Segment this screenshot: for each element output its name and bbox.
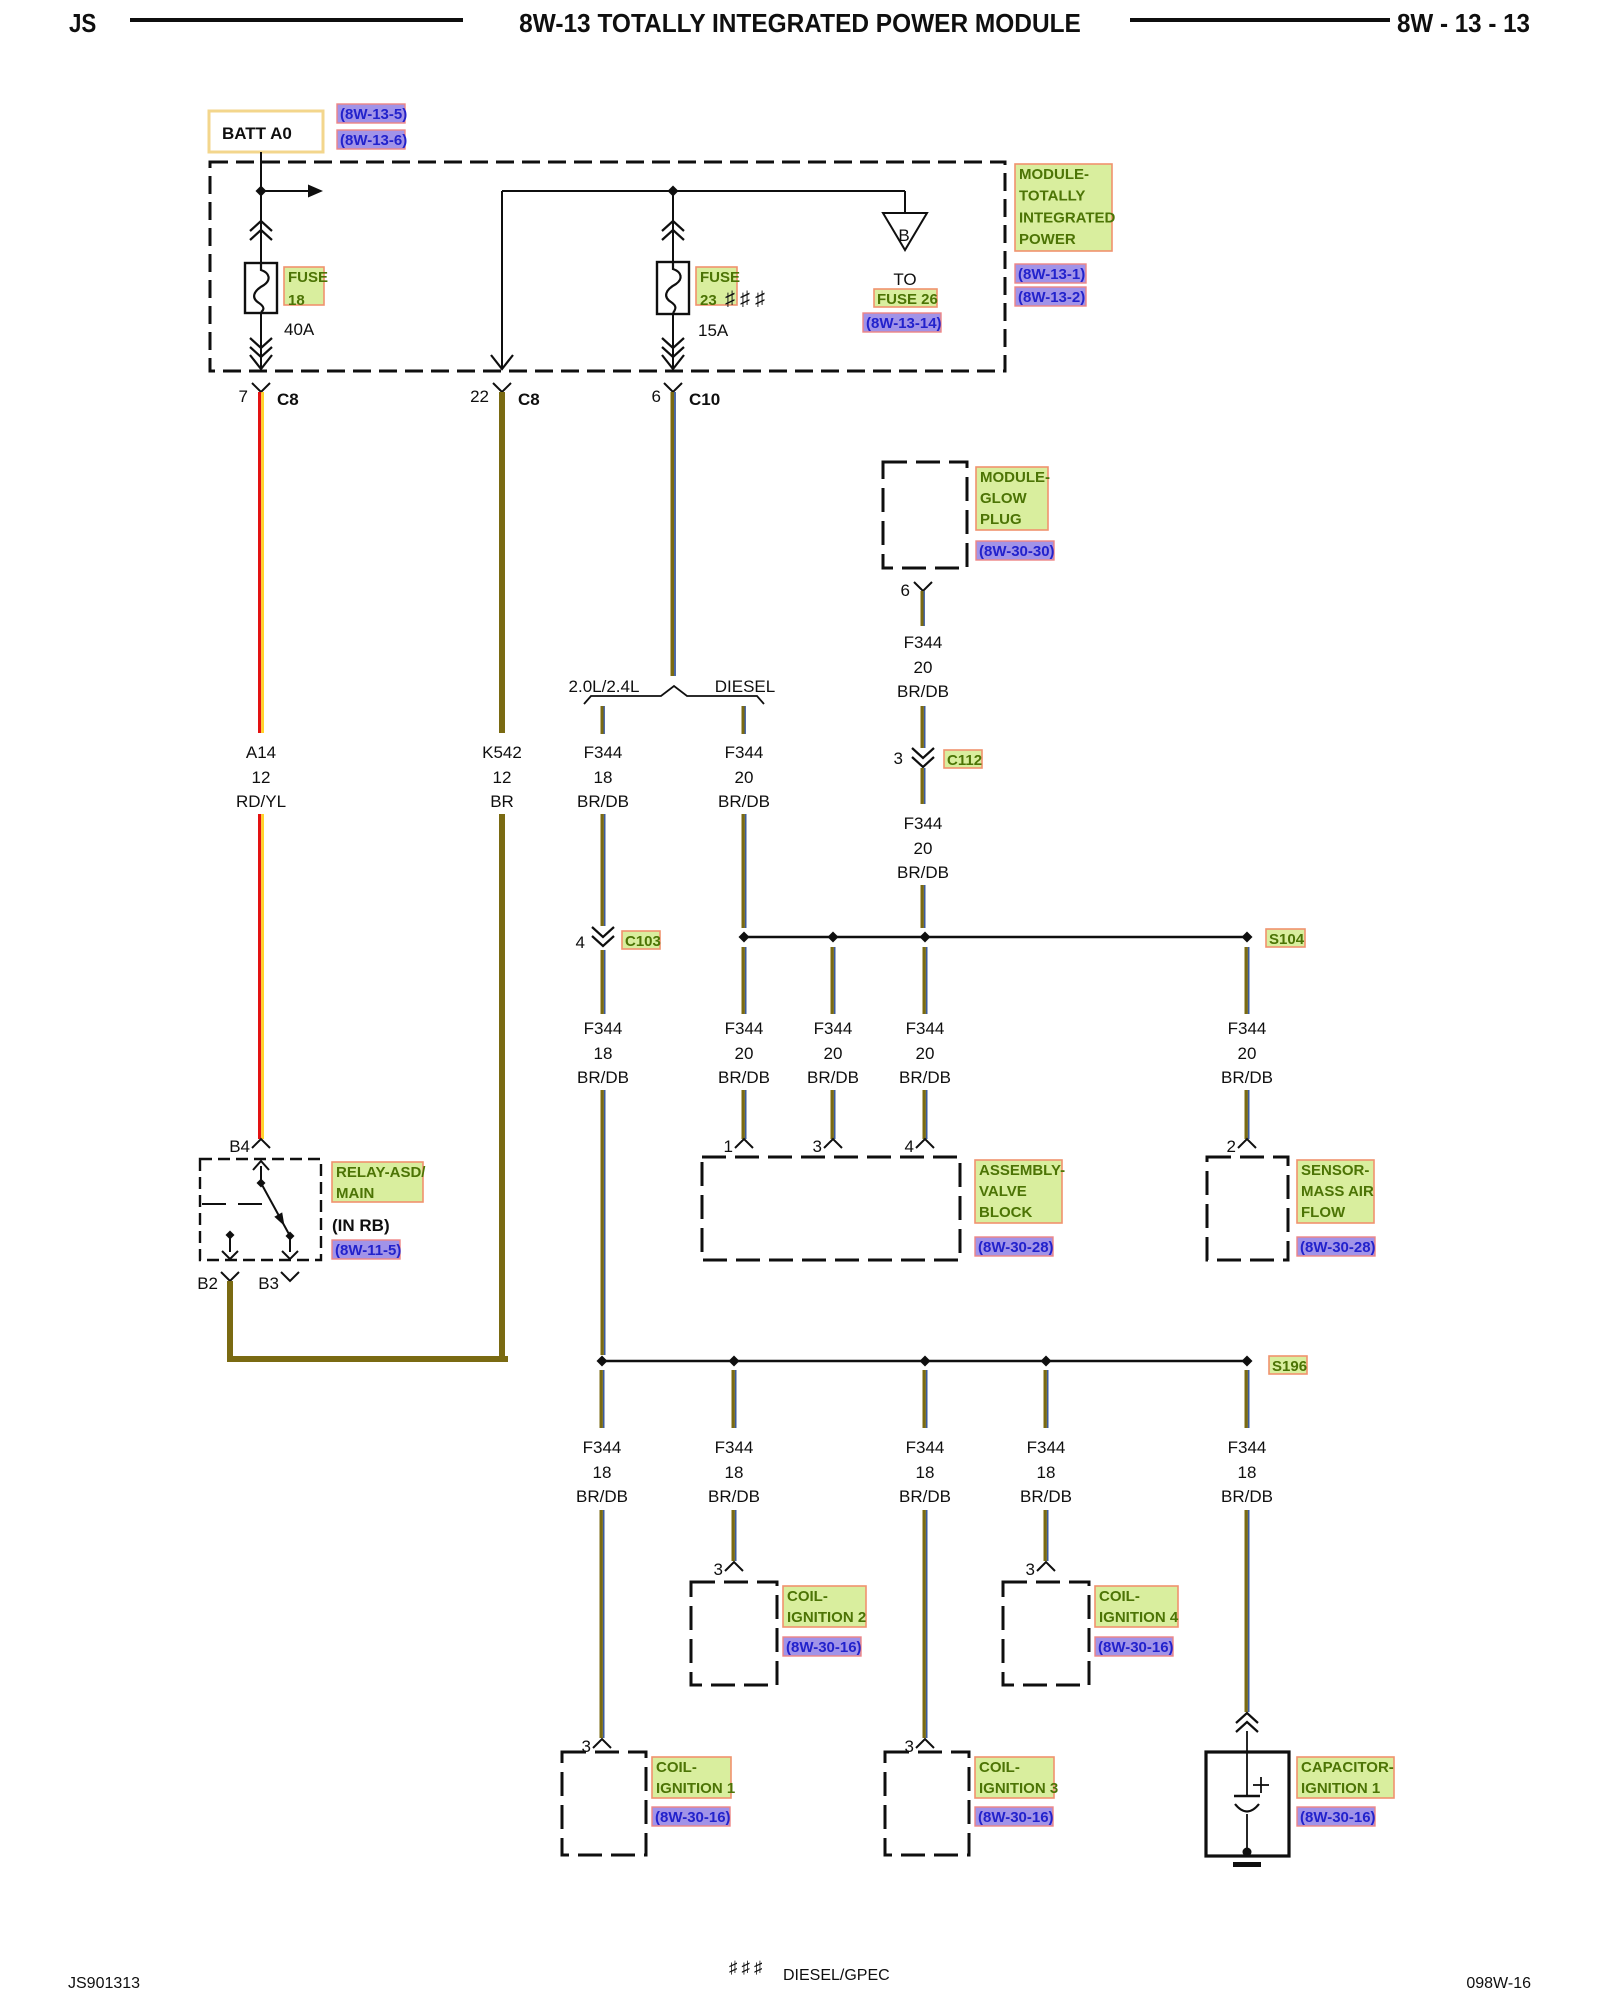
svg-text:F344: F344 <box>725 1019 764 1038</box>
label wire F344 20 BR/DB glow <box>897 633 949 701</box>
pin 3 at C112 <box>894 749 903 768</box>
svg-text:C10: C10 <box>689 390 720 409</box>
header rule right <box>1130 18 1390 22</box>
svg-text:3: 3 <box>1026 1560 1035 1579</box>
label wire F344 20 BR/DB to pin4 <box>899 1019 951 1087</box>
svg-text:(8W-30-16): (8W-30-16) <box>978 1809 1054 1826</box>
inline connector chevrons below fuse 18 <box>250 338 272 357</box>
svg-text:20: 20 <box>914 658 933 677</box>
page reference (8W-30-16) coil1 <box>652 1807 731 1826</box>
wire into valve pin 4 <box>923 1090 928 1139</box>
svg-text:4: 4 <box>905 1137 914 1156</box>
wire feed to fuse 23 <box>672 191 674 262</box>
svg-text:18: 18 <box>916 1463 935 1482</box>
label FUSE 26 <box>874 289 938 308</box>
svg-text:SENSOR-: SENSOR- <box>1301 1162 1369 1179</box>
svg-text:(8W-13-2): (8W-13-2) <box>1018 289 1085 306</box>
coil ignition 2 dashed outline <box>691 1582 777 1685</box>
battery feed box BATT A0 <box>209 111 323 152</box>
svg-text:BR/DB: BR/DB <box>897 682 949 701</box>
svg-text:BR/DB: BR/DB <box>576 1487 628 1506</box>
connector C8 pin 7 <box>239 383 299 409</box>
page reference (8W-13-6) <box>337 130 407 149</box>
wire stub below glow plug <box>921 591 925 626</box>
svg-text:F344: F344 <box>906 1438 945 1457</box>
connector C10 pin 6 <box>652 383 721 409</box>
svg-text:40A: 40A <box>284 320 315 339</box>
label wire F344 20 BR/DB to MAF <box>1221 1019 1273 1087</box>
svg-text:C112: C112 <box>947 752 982 769</box>
svg-text:18: 18 <box>725 1463 744 1482</box>
page reference (8W-13-2) <box>1015 287 1086 306</box>
ground symbol <box>1233 1862 1261 1867</box>
label C112 <box>944 750 982 769</box>
relay contact arm <box>253 1161 298 1259</box>
svg-text:BR/DB: BR/DB <box>899 1068 951 1087</box>
svg-text:18: 18 <box>288 292 305 309</box>
label COIL-IGNITION 3 <box>975 1757 1058 1798</box>
svg-text:(IN RB): (IN RB) <box>332 1216 390 1235</box>
module TIPM dashed outline <box>210 162 1005 371</box>
wire K542 12 BR upper <box>499 392 505 733</box>
svg-text:BR/DB: BR/DB <box>1221 1487 1273 1506</box>
svg-text:C103: C103 <box>625 933 661 950</box>
label wire A14 12 RD/YL <box>236 743 286 811</box>
splice S196 bus wire <box>602 1360 1247 1362</box>
inline connector chevrons above fuse 18 <box>250 221 272 240</box>
svg-text:A14: A14 <box>246 743 276 762</box>
svg-text:18: 18 <box>594 1044 613 1063</box>
wire fuse 23 to connector C10-6 <box>662 314 684 369</box>
wire stub below S196 at coil2 <box>732 1370 737 1428</box>
svg-text:(8W-13-14): (8W-13-14) <box>866 315 942 332</box>
svg-text:18: 18 <box>593 1463 612 1482</box>
svg-text:BR/DB: BR/DB <box>1020 1487 1072 1506</box>
svg-text:BR/DB: BR/DB <box>718 1068 770 1087</box>
svg-text:F344: F344 <box>1228 1438 1267 1457</box>
svg-text:BR/DB: BR/DB <box>899 1487 951 1506</box>
svg-text:BR: BR <box>490 792 514 811</box>
svg-text:(8W-30-28): (8W-30-28) <box>978 1239 1054 1256</box>
wire stub below S196 at coil4 <box>1044 1370 1049 1428</box>
svg-text:(8W-30-28): (8W-30-28) <box>1300 1239 1376 1256</box>
svg-text:F344: F344 <box>584 1019 623 1038</box>
wire S104 to valve pin 4 <box>923 947 928 1014</box>
wire BATT A0 to fuse 18 <box>260 152 262 263</box>
svg-text:(8W-30-16): (8W-30-16) <box>1300 1809 1376 1826</box>
svg-text:S104: S104 <box>1269 931 1305 948</box>
svg-text:F344: F344 <box>1228 1019 1267 1038</box>
svg-text:RELAY-ASD/: RELAY-ASD/ <box>336 1164 426 1181</box>
svg-text:B4: B4 <box>229 1137 250 1156</box>
svg-text:IGNITION 1: IGNITION 1 <box>1301 1780 1380 1797</box>
label wire F344 18 BR/DB (2.0L branch) <box>577 743 629 811</box>
wire into valve pin 3 <box>831 1090 836 1139</box>
connector C112 chevrons <box>912 748 934 767</box>
splice junction S196 col1 <box>597 1356 608 1367</box>
label wire F344 20 BR/DB to pin1 <box>718 1019 770 1087</box>
svg-text:MAIN: MAIN <box>336 1185 374 1202</box>
svg-text:COIL-: COIL- <box>979 1759 1020 1776</box>
wire S196 to capacitor <box>1245 1510 1250 1712</box>
svg-text:TOTALLY: TOTALLY <box>1019 188 1085 205</box>
svg-text:COIL-: COIL- <box>787 1588 828 1605</box>
label S196 <box>1269 1356 1307 1375</box>
svg-text:F344: F344 <box>725 743 764 762</box>
coil ignition 3 dashed outline <box>885 1752 969 1855</box>
splice junction S196 end <box>1242 1356 1253 1367</box>
connector valve block pin 1 <box>724 1137 753 1156</box>
svg-text:♯♯♯: ♯♯♯ <box>725 288 770 310</box>
label DIESEL <box>715 677 775 696</box>
svg-text:F344: F344 <box>1027 1438 1066 1457</box>
connector coil ignition 3 pin 3 <box>905 1737 934 1756</box>
svg-text:(8W-13-1): (8W-13-1) <box>1018 266 1085 283</box>
svg-text:MODULE-: MODULE- <box>1019 166 1089 183</box>
wire F344 from C10-6 <box>671 392 676 676</box>
wire relay B2 ground run <box>227 1281 508 1362</box>
connector C8 pin 22 <box>470 383 540 409</box>
svg-text:4: 4 <box>576 933 585 952</box>
svg-text:20: 20 <box>824 1044 843 1063</box>
label wire F344 20 BR/DB below C112 <box>897 814 949 882</box>
page reference (8W-30-16) coil4 <box>1095 1637 1174 1656</box>
svg-text:(8W-13-6): (8W-13-6) <box>340 132 407 149</box>
svg-text:12: 12 <box>252 768 271 787</box>
wire glow plug to C112 <box>921 706 926 748</box>
connector glow plug pin 6 <box>901 581 932 600</box>
svg-text:7: 7 <box>239 387 248 406</box>
label C103 <box>622 931 661 950</box>
assembly valve block dashed outline <box>702 1157 960 1260</box>
svg-text:20: 20 <box>914 839 933 858</box>
wire into MAF pin 2 <box>1245 1090 1250 1139</box>
wire C112 to S104 <box>921 768 926 804</box>
footer footnote marks <box>729 1958 767 1978</box>
value label 40A <box>284 320 315 339</box>
wire A14 12 RD/YL upper <box>258 392 264 733</box>
relay ASD/MAIN dashed outline <box>200 1159 321 1260</box>
page reference (8W-11-5) <box>332 1240 401 1259</box>
svg-text:6: 6 <box>901 581 910 600</box>
splice junction S104 at glow feed <box>920 932 931 943</box>
svg-text:IGNITION 2: IGNITION 2 <box>787 1609 866 1626</box>
svg-text:BR/DB: BR/DB <box>897 863 949 882</box>
label FUSE 23 <box>696 267 740 309</box>
svg-text:20: 20 <box>735 1044 754 1063</box>
svg-text:BR/DB: BR/DB <box>807 1068 859 1087</box>
svg-text:FUSE 26: FUSE 26 <box>877 291 938 308</box>
svg-text:C8: C8 <box>518 390 540 409</box>
wire S104 to valve pin 3 <box>831 947 836 1014</box>
header title <box>519 8 1081 39</box>
svg-text:2: 2 <box>1227 1137 1236 1156</box>
wire into capacitor <box>1246 1731 1248 1795</box>
splice junction S196 col2 <box>729 1356 740 1367</box>
connector coil ignition 4 pin 3 <box>1026 1560 1055 1579</box>
svg-text:20: 20 <box>735 768 754 787</box>
label wire F344 20 BR/DB to pin3 <box>807 1019 859 1087</box>
svg-text:ASSEMBLY-: ASSEMBLY- <box>979 1162 1065 1179</box>
svg-text:PLUG: PLUG <box>980 511 1022 528</box>
label wire F344 18 BR/DB below C103 <box>577 1019 629 1087</box>
page reference (8W-13-1) <box>1015 264 1086 283</box>
svg-text:FUSE: FUSE <box>288 269 328 286</box>
capacitor C1 symbol <box>1234 1796 1260 1857</box>
splice S104 bus wire <box>744 936 1247 938</box>
footer drawing number <box>1380 1975 1531 1993</box>
label FUSE 18 <box>284 267 328 309</box>
connector coil ignition 1 pin 3 <box>582 1737 611 1756</box>
coil ignition 4 dashed outline <box>1003 1582 1089 1685</box>
label wire F344 18 BR/DB at capacitor <box>1221 1438 1273 1506</box>
svg-text:F344: F344 <box>715 1438 754 1457</box>
svg-text:F344: F344 <box>584 743 623 762</box>
svg-text:RD/YL: RD/YL <box>236 792 286 811</box>
page reference (8W-30-28) valve <box>975 1237 1054 1256</box>
wire stub 2.0L branch <box>601 706 605 734</box>
splice junction S104 at pin3 <box>828 932 839 943</box>
connector relay pin B3 <box>258 1272 299 1293</box>
svg-text:(8W-30-16): (8W-30-16) <box>1098 1639 1174 1656</box>
svg-text:BLOCK: BLOCK <box>979 1204 1032 1221</box>
header label JS <box>69 8 96 39</box>
wire S196 to coil ignition 1 <box>600 1510 605 1738</box>
wire stub below S196 at coil1 <box>600 1370 605 1428</box>
svg-text:F344: F344 <box>904 633 943 652</box>
splice junction S196 col4 <box>1041 1356 1052 1367</box>
value label 15A <box>698 321 729 340</box>
fuse F23 symbol <box>657 262 689 314</box>
relay coil dashed bar <box>202 1203 263 1205</box>
svg-text:(8W-30-16): (8W-30-16) <box>655 1809 731 1826</box>
svg-text:MASS AIR: MASS AIR <box>1301 1183 1374 1200</box>
label SENSOR-MASS AIR FLOW <box>1297 1160 1374 1223</box>
footer label DIESEL/GPEC <box>783 1967 890 1985</box>
svg-text:GLOW: GLOW <box>980 490 1027 507</box>
svg-text:F344: F344 <box>814 1019 853 1038</box>
header rule left <box>130 18 463 22</box>
svg-text:(8W-11-5): (8W-11-5) <box>335 1242 401 1259</box>
svg-text:IGNITION 4: IGNITION 4 <box>1099 1609 1179 1626</box>
connector relay pin B4 <box>229 1137 270 1156</box>
svg-text:CAPACITOR-: CAPACITOR- <box>1301 1759 1394 1776</box>
label wire K542 12 BR <box>482 743 522 811</box>
svg-text:BR/DB: BR/DB <box>577 1068 629 1087</box>
svg-text:K542: K542 <box>482 743 522 762</box>
svg-text:IGNITION 1: IGNITION 1 <box>656 1780 735 1797</box>
inline connector chevrons above capacitor <box>1236 1713 1258 1732</box>
svg-text:BATT A0: BATT A0 <box>222 124 292 143</box>
footer sheet code <box>68 1975 140 1993</box>
label MODULE-TOTALLY INTEGRATED POWER <box>1015 164 1116 251</box>
sensor mass air flow dashed outline <box>1207 1157 1288 1260</box>
wire S196 to coil ignition 2 <box>732 1510 737 1561</box>
svg-text:COIL-: COIL- <box>656 1759 697 1776</box>
inline connector chevrons above fuse 23 <box>662 221 684 240</box>
label wire F344 18 BR/DB at coil2 <box>708 1438 760 1506</box>
svg-text:F344: F344 <box>583 1438 622 1457</box>
svg-text:20: 20 <box>916 1044 935 1063</box>
label 2.0L/2.4L <box>569 677 640 696</box>
label TO <box>893 270 916 289</box>
engine variant split brace <box>584 686 764 704</box>
capacitor ignition 1 outline <box>1206 1752 1289 1856</box>
svg-text:3: 3 <box>714 1560 723 1579</box>
svg-text:23: 23 <box>700 292 717 309</box>
wire fuse 18 to connector C8-7 <box>250 313 272 369</box>
svg-text:VALVE: VALVE <box>979 1183 1027 1200</box>
svg-text:B2: B2 <box>197 1274 218 1293</box>
page reference (8W-30-30) <box>976 541 1055 560</box>
page reference (8W-30-16) coil2 <box>783 1637 862 1656</box>
svg-text:DIESEL: DIESEL <box>715 677 775 696</box>
svg-text:C8: C8 <box>277 390 299 409</box>
footnote marks after fuse 23 <box>725 288 770 310</box>
svg-text:1: 1 <box>724 1137 733 1156</box>
module glow plug dashed outline <box>883 462 967 568</box>
page reference (8W-30-16) coil3 <box>975 1807 1054 1826</box>
svg-text:12: 12 <box>493 768 512 787</box>
label COIL-IGNITION 2 <box>783 1586 866 1627</box>
svg-text:3: 3 <box>813 1137 822 1156</box>
svg-text:BR/DB: BR/DB <box>708 1487 760 1506</box>
wire C103 to splice S196 <box>601 950 606 1014</box>
svg-text:MODULE-: MODULE- <box>980 469 1050 486</box>
svg-text:BR/DB: BR/DB <box>718 792 770 811</box>
label COIL-IGNITION 4 <box>1095 1586 1179 1627</box>
wire stub DIESEL branch <box>742 706 746 734</box>
svg-text:3: 3 <box>894 749 903 768</box>
connector relay pin B2 <box>197 1272 239 1293</box>
wire K542 12 BR lower <box>499 814 505 1362</box>
svg-text:FLOW: FLOW <box>1301 1204 1346 1221</box>
label CAPACITOR-IGNITION 1 <box>1297 1757 1394 1798</box>
wire S196 to coil ignition 3 <box>923 1510 928 1738</box>
inline connector chevrons below fuse 23 <box>662 338 684 357</box>
wire arrow to TIPM internal feed <box>261 185 323 198</box>
fuse F18 symbol <box>245 263 277 313</box>
wire A14 12 RD/YL lower <box>258 814 264 1139</box>
connector valve block pin 4 <box>905 1137 934 1156</box>
svg-text:S196: S196 <box>1272 1358 1307 1375</box>
label COIL-IGNITION 1 <box>652 1757 735 1798</box>
svg-text:15A: 15A <box>698 321 729 340</box>
connector MAF pin 2 <box>1227 1137 1256 1156</box>
relay coil pin <box>222 1231 238 1260</box>
label wire F344 18 BR/DB at coil3 <box>899 1438 951 1506</box>
off-page connector B triangle <box>883 213 927 250</box>
pin 4 at C103 <box>576 933 585 952</box>
svg-text:F344: F344 <box>906 1019 945 1038</box>
capacitor polarity plus sign <box>1253 1777 1269 1793</box>
label (IN RB) <box>332 1216 390 1235</box>
wire down left of valve block <box>601 1090 606 1355</box>
wire stub below S196 at coil3 <box>923 1370 928 1428</box>
svg-text:18: 18 <box>1238 1463 1257 1482</box>
label wire F344 18 BR/DB at coil4 <box>1020 1438 1072 1506</box>
svg-text:20: 20 <box>1238 1044 1257 1063</box>
svg-text:B3: B3 <box>258 1274 279 1293</box>
page reference (8W-30-16) capacitor <box>1297 1807 1376 1826</box>
wire S104 to valve pin 1 <box>742 947 747 1014</box>
svg-text:F344: F344 <box>904 814 943 833</box>
splice junction S104 end <box>1242 932 1253 943</box>
svg-text:IGNITION 3: IGNITION 3 <box>979 1780 1058 1797</box>
node junction at fuse 18 feed <box>256 186 267 197</box>
svg-text:(8W-13-5): (8W-13-5) <box>340 106 407 123</box>
page reference (8W-30-28) MAF <box>1297 1237 1376 1256</box>
label ASSEMBLY-VALVE BLOCK <box>975 1160 1065 1223</box>
svg-text:POWER: POWER <box>1019 231 1076 248</box>
svg-text:(8W-30-16): (8W-30-16) <box>786 1639 862 1656</box>
wire to connector C103 <box>601 814 606 926</box>
node junction at fuse 23 feed <box>668 186 679 197</box>
coil ignition 1 dashed outline <box>562 1752 646 1855</box>
svg-text:6: 6 <box>652 387 661 406</box>
svg-text:2.0L/2.4L: 2.0L/2.4L <box>569 677 640 696</box>
header page number <box>1397 8 1530 39</box>
svg-text:FUSE: FUSE <box>700 269 740 286</box>
svg-text:22: 22 <box>470 387 489 406</box>
page reference (8W-13-14) <box>863 313 942 332</box>
svg-text:B: B <box>898 226 909 245</box>
svg-text:TO: TO <box>893 270 916 289</box>
wire stub below S196 at capacitor <box>1245 1370 1250 1428</box>
svg-text:18: 18 <box>1037 1463 1056 1482</box>
svg-text:BR/DB: BR/DB <box>577 792 629 811</box>
label RELAY-ASD/MAIN <box>332 1162 426 1202</box>
connector coil ignition 2 pin 3 <box>714 1560 743 1579</box>
label wire F344 18 BR/DB at coil1 <box>576 1438 628 1506</box>
connector valve block pin 3 <box>813 1137 842 1156</box>
wire branch to fuse 26 off-page <box>904 191 906 213</box>
page reference (8W-13-5) <box>337 104 407 123</box>
splice junction S104 at diesel branch <box>739 932 750 943</box>
wire riser to C8-22 <box>491 191 513 369</box>
bus wire from C8-22 riser <box>502 190 905 192</box>
label S104 <box>1266 929 1305 948</box>
splice junction S196 col3 <box>920 1356 931 1367</box>
wire into valve pin 1 <box>742 1090 747 1139</box>
connector C103 chevrons <box>592 927 614 946</box>
svg-text:18: 18 <box>594 768 613 787</box>
wire S104 to MAF pin 2 <box>1245 947 1250 1014</box>
svg-text:COIL-: COIL- <box>1099 1588 1140 1605</box>
wire to splice S104 <box>921 885 926 928</box>
label MODULE-GLOW PLUG <box>976 467 1050 530</box>
wire S196 to coil ignition 4 <box>1044 1510 1049 1561</box>
svg-text:INTEGRATED: INTEGRATED <box>1019 209 1116 226</box>
svg-text:BR/DB: BR/DB <box>1221 1068 1273 1087</box>
wire DIESEL branch to splice S104 <box>742 814 747 928</box>
label wire F344 20 BR/DB (DIESEL branch) <box>718 743 770 811</box>
svg-text:(8W-30-30): (8W-30-30) <box>979 543 1055 560</box>
